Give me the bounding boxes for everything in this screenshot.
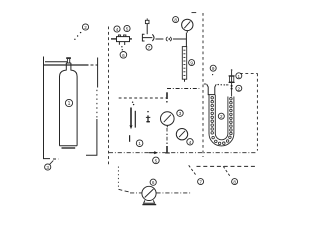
dotted line down-left to pump xyxy=(117,167,119,188)
needle valve body xyxy=(142,34,152,41)
pump suction line xyxy=(130,192,142,194)
svg-text:2: 2 xyxy=(238,86,241,91)
bench dashed line xyxy=(197,165,256,167)
regulator box xyxy=(117,37,130,42)
housing right wall dotted middle xyxy=(96,89,98,118)
sample cell arrow line xyxy=(130,108,132,126)
label 4 xyxy=(114,26,120,32)
leader dots to label 6 xyxy=(121,46,122,47)
svg-text:6: 6 xyxy=(152,180,155,185)
svg-text:5: 5 xyxy=(155,158,158,163)
svg-text:7: 7 xyxy=(148,45,151,50)
dash-dot pipe y88.5 xyxy=(167,88,199,90)
svg-text:3: 3 xyxy=(46,165,49,170)
housing top rail main line xyxy=(44,64,89,66)
pressure gauge top xyxy=(182,19,193,30)
sample cell top dots xyxy=(132,102,133,103)
svg-text:3: 3 xyxy=(179,111,182,116)
rotameter tube xyxy=(182,47,186,80)
label 16 xyxy=(232,179,238,185)
label 12 xyxy=(187,139,193,145)
svg-text:8: 8 xyxy=(233,180,236,185)
label 11 xyxy=(177,110,183,116)
thick end at bottom xyxy=(166,146,168,153)
packing beads right arm xyxy=(230,98,233,135)
svg-text:2: 2 xyxy=(220,114,223,119)
label 3 below housing xyxy=(45,164,51,170)
cylinder housing left wall xyxy=(44,57,51,159)
label 5 xyxy=(124,25,130,31)
step tick x167 xyxy=(166,92,168,99)
regulator legs xyxy=(119,42,124,45)
pump base xyxy=(144,200,155,203)
needle valve right arc xyxy=(152,34,154,41)
gas cylinder body xyxy=(60,63,67,146)
connection dash left of cup xyxy=(204,83,207,85)
label 18 inside U gap xyxy=(218,113,224,119)
bench diagonal leader 2 xyxy=(223,166,230,176)
svg-text:8: 8 xyxy=(174,18,177,23)
label 15 xyxy=(198,179,204,185)
pump discharge line xyxy=(156,192,191,194)
pipe to union xyxy=(156,38,164,40)
leader dots from label 2 to valve xyxy=(80,32,81,33)
U-tube mouth cup xyxy=(207,84,217,94)
rotameter ticks xyxy=(183,50,185,75)
label 19 xyxy=(236,73,242,79)
regulator left stub xyxy=(111,38,117,40)
label 6 xyxy=(120,52,127,59)
union joint xyxy=(166,37,168,41)
regulator top bumps xyxy=(118,35,126,37)
housing right wall upper xyxy=(97,58,99,88)
label 10 in box xyxy=(136,140,143,147)
right enclosure right dashed xyxy=(256,73,258,150)
housing top rail upper line xyxy=(45,61,68,63)
gauge needle xyxy=(184,21,190,28)
U-tube outer bend xyxy=(209,134,234,146)
left dashed boundary xyxy=(108,27,110,167)
cylinder foot line xyxy=(62,147,76,149)
packing beads left arm xyxy=(211,97,214,135)
label 9 right of rotameter xyxy=(189,60,195,66)
housing bottom dashes xyxy=(53,158,59,160)
svg-text:6: 6 xyxy=(122,53,125,58)
U-tube right arm walls xyxy=(228,97,234,134)
svg-text:2: 2 xyxy=(84,25,87,30)
cylinder collar xyxy=(66,62,71,64)
top right corner dash xyxy=(192,12,197,14)
sample cell arrowhead xyxy=(130,125,133,129)
label 13 below arrow xyxy=(153,157,160,164)
svg-text:9: 9 xyxy=(212,66,215,71)
rotameter foot xyxy=(184,79,186,82)
cylinder valve T handle xyxy=(66,57,71,59)
svg-text:1: 1 xyxy=(238,74,241,79)
dotted connection cup to valve xyxy=(218,84,219,85)
svg-text:7: 7 xyxy=(199,180,202,185)
label 7 under needle valve xyxy=(146,44,152,50)
flow arrow on bottom line xyxy=(149,152,155,154)
valve assembly above right arm xyxy=(231,69,233,71)
svg-text:5: 5 xyxy=(126,27,129,32)
needle valve stem xyxy=(146,24,148,35)
gauge 2 in box xyxy=(176,129,187,140)
label 1 circle inside cylinder xyxy=(65,99,72,106)
housing bottom right and right wall lower xyxy=(86,119,97,155)
svg-text:1: 1 xyxy=(68,101,71,107)
label 20 xyxy=(236,85,242,91)
top rail dash continuation xyxy=(91,64,98,66)
vertical dash-dot through gauge1 xyxy=(166,128,168,141)
bottom dash-dot line xyxy=(109,152,257,154)
label 14 above pump xyxy=(150,179,156,185)
leader line of label 3 xyxy=(50,161,54,165)
mini valve t xyxy=(147,111,149,113)
needle valve handle xyxy=(145,20,149,23)
svg-text:1: 1 xyxy=(138,141,141,146)
label 17 above mouth xyxy=(210,65,216,71)
handle top tick xyxy=(146,18,148,20)
right enclosure top dashed xyxy=(240,72,257,74)
vacuum pump xyxy=(142,186,156,200)
pipe to gauge line xyxy=(173,38,187,40)
sample cell right line xyxy=(134,111,136,128)
label 2 near cylinder valve xyxy=(82,24,88,30)
svg-text:9: 9 xyxy=(190,61,193,66)
cylinder valve stem xyxy=(67,59,69,63)
U-tube inner bend xyxy=(215,134,228,140)
dashed pipe y98 xyxy=(119,97,167,99)
tall right dashed boundary xyxy=(202,13,204,157)
packing beads bend xyxy=(212,136,231,145)
sample cell lower tick xyxy=(129,135,131,142)
regulator right stub xyxy=(130,38,132,40)
gauge 1 in box xyxy=(161,112,175,126)
svg-text:4: 4 xyxy=(116,27,119,32)
label 8 left of gauge xyxy=(173,17,179,23)
gauge bottom tick xyxy=(186,31,188,33)
svg-text:4: 4 xyxy=(189,140,192,145)
bench diagonal leader 1 xyxy=(189,165,197,175)
gauge stem down to rotameter xyxy=(185,33,187,47)
U-tube left arm walls xyxy=(209,95,215,134)
